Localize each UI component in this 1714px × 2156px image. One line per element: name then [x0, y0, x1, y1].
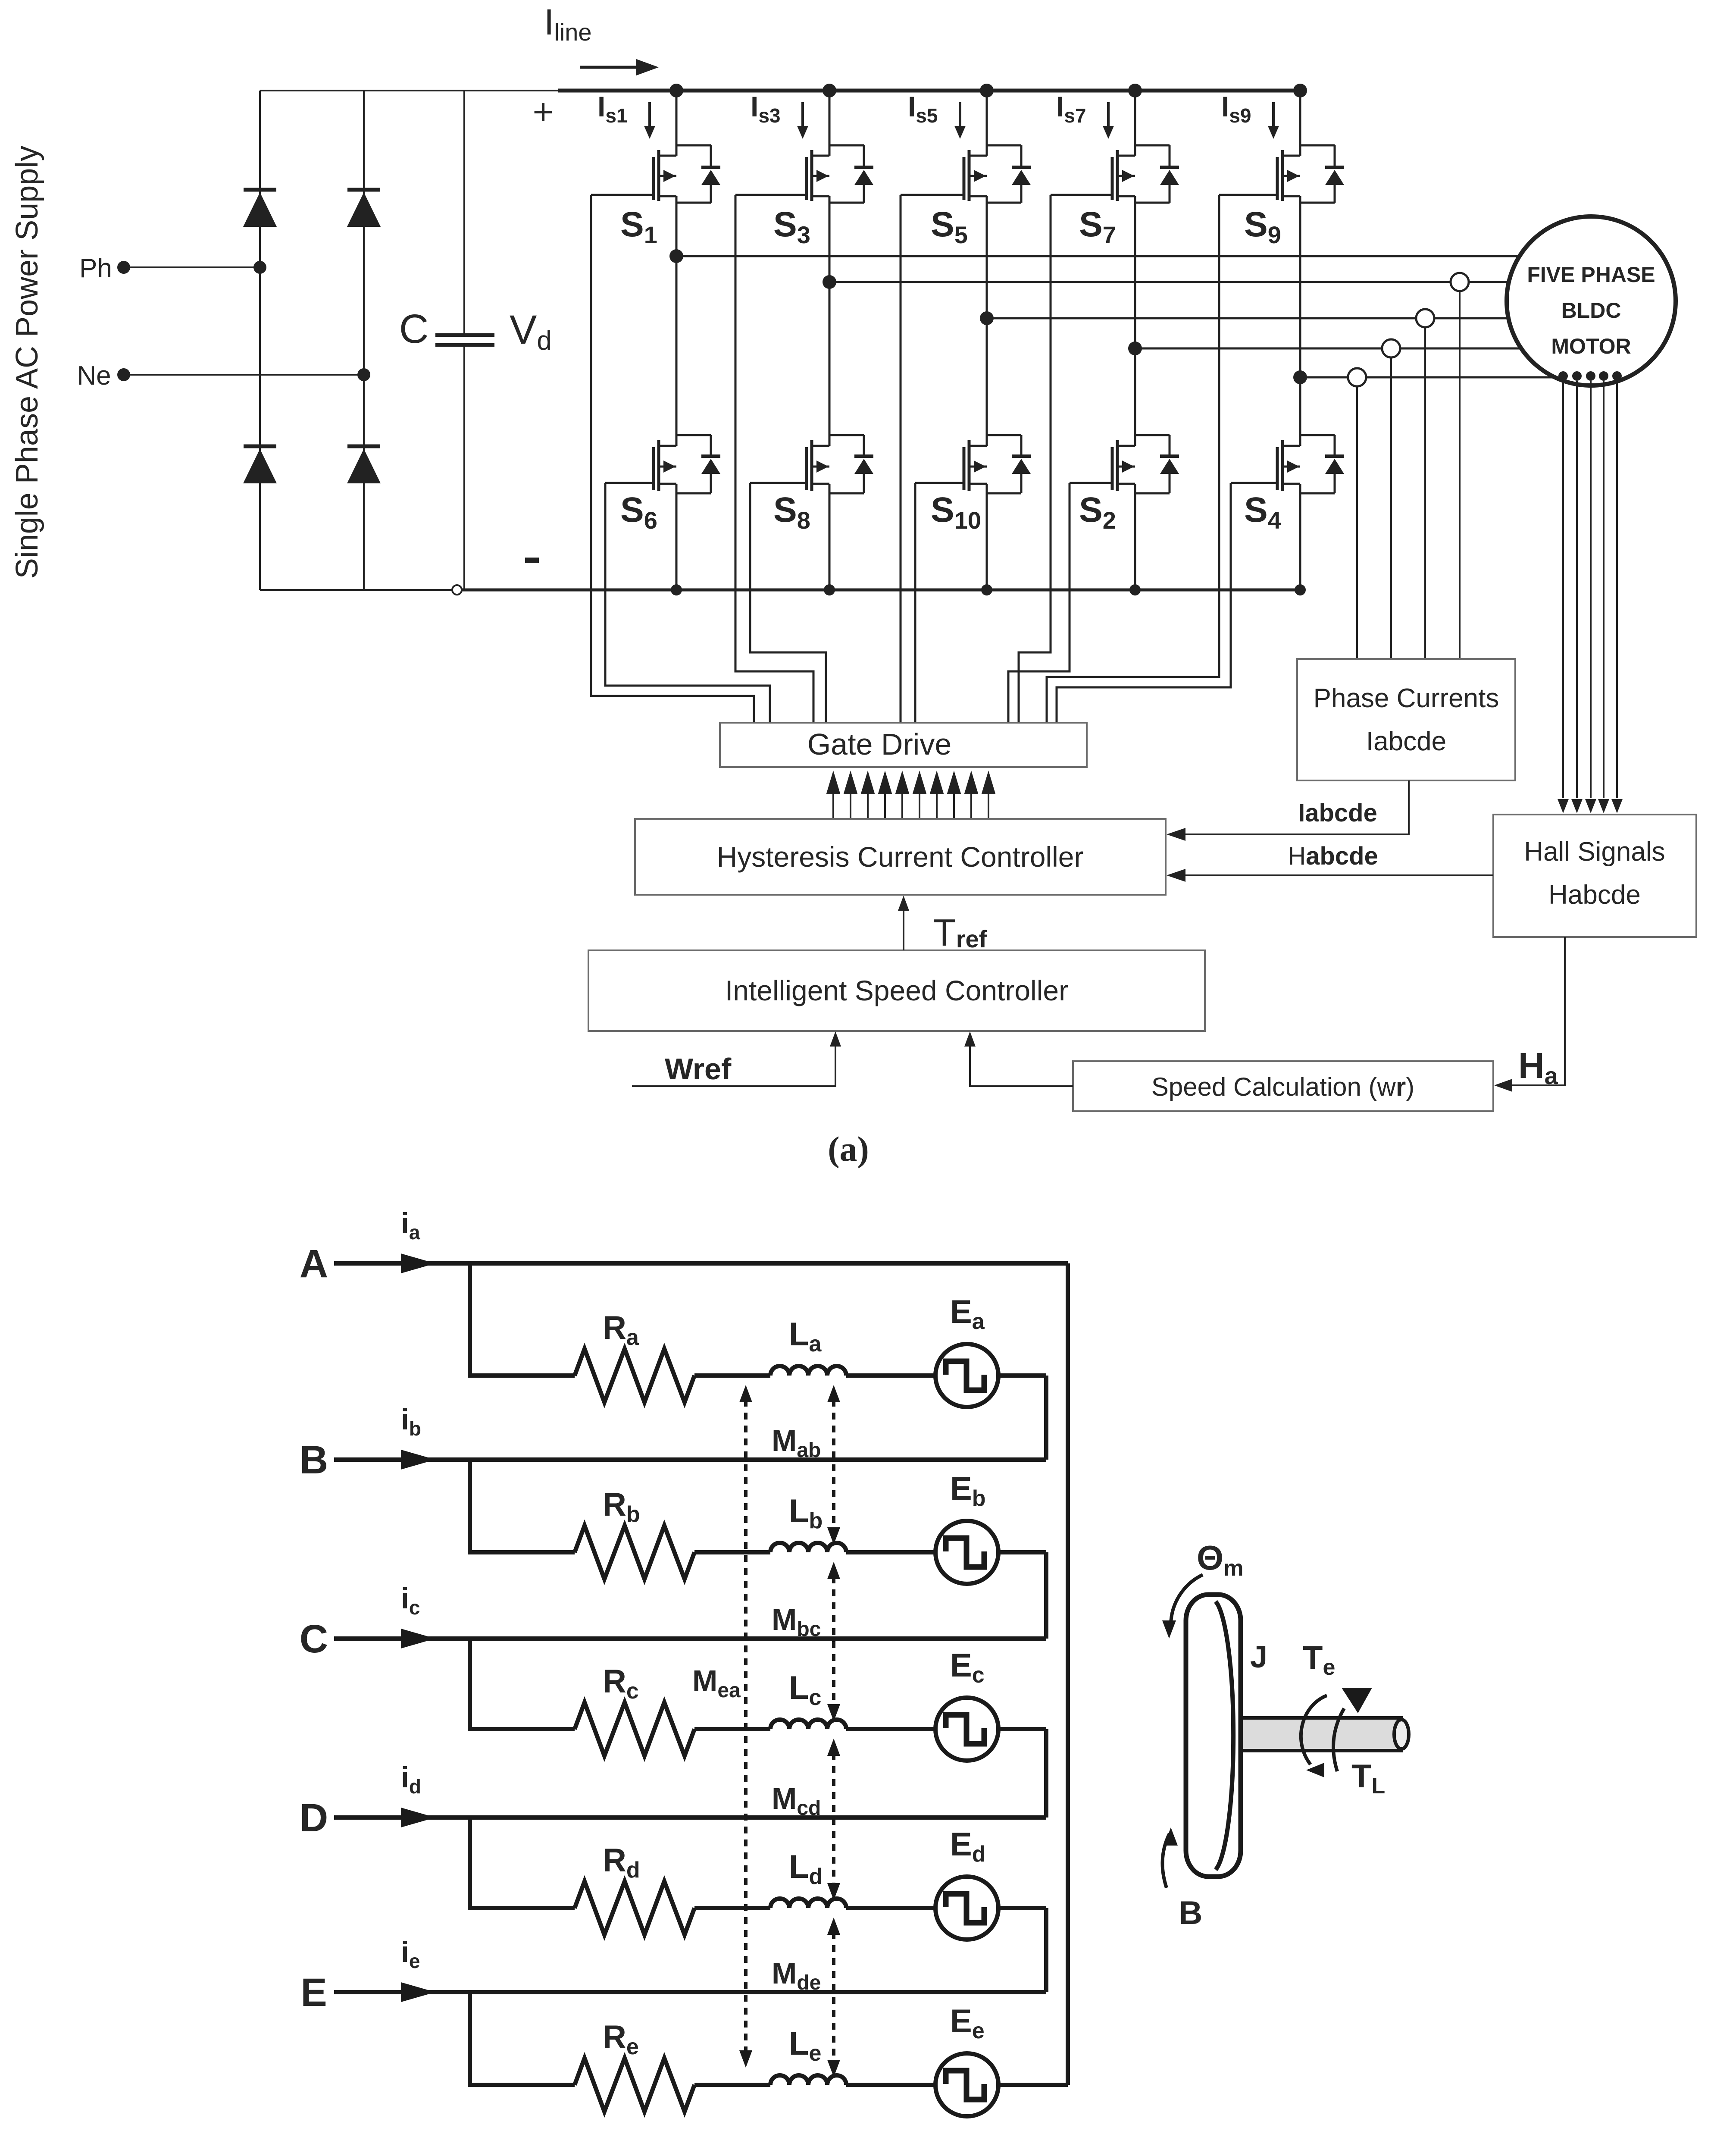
arrow: Is1 current direction	[648, 102, 651, 128]
wire: gate drive to S7	[1019, 195, 1051, 723]
svg-text:Single Phase AC Power Supply: Single Phase AC Power Supply	[10, 146, 44, 579]
mutual inductance Mcd dashed arrow	[832, 1753, 835, 1886]
flywheel J (rotor disc)	[1186, 1595, 1241, 1877]
diode D2 (bridge, bottom-left)	[244, 445, 276, 448]
svg-text:Ph: Ph	[79, 254, 112, 283]
transistor S2 (lower MOSFET with body diode)	[1134, 348, 1136, 446]
wire: outer return conductor	[1066, 1263, 1070, 2085]
svg-text:Iabcde: Iabcde	[1298, 799, 1377, 827]
wire: phase c line to motor	[987, 317, 1508, 320]
node: phase junction leg 3	[980, 311, 994, 325]
wire: phase e line to motor	[1300, 376, 1555, 379]
wire: gate drive to S5	[900, 195, 902, 723]
wire: hall signal 1 to Hall Signals block	[1562, 381, 1564, 798]
node: DC- bus junction leg 5	[1295, 584, 1306, 595]
diode D1 (bridge, top-left)	[244, 188, 276, 192]
wire: hall signal 5 to Hall Signals block	[1616, 381, 1618, 798]
wire: phase A input line	[334, 1261, 1068, 1266]
svg-text:MOTOR: MOTOR	[1551, 334, 1631, 358]
node: DC- bus junction leg 2	[824, 584, 835, 595]
wire: Ha (Hall Signals to Speed Calculation)	[1511, 937, 1565, 1085]
wire: Eb to next phase line	[998, 1550, 1046, 1554]
svg-text:Iabcde: Iabcde	[1366, 727, 1446, 756]
mutual inductance Mab dashed arrow	[832, 1400, 835, 1530]
wire: branch d drop	[468, 1818, 472, 1908]
wire: Ld to Ed	[846, 1906, 935, 1910]
wire: branch d	[468, 1906, 575, 1910]
transistor S8 (lower MOSFET with body diode)	[829, 282, 831, 446]
wire: Lb to Eb	[846, 1550, 935, 1554]
mutual inductance Mea dashed arrow	[744, 1400, 748, 2053]
block: Hall Signals Habcde	[1493, 815, 1696, 937]
transistor S4 (lower MOSFET with body diode)	[1299, 377, 1301, 446]
resistor Re	[575, 2058, 694, 2112]
source Ec (back-EMF)	[935, 1698, 998, 1761]
transistor S9 (upper MOSFET with body diode)	[1299, 91, 1301, 156]
wire: Habcde (Hall Signals to Hysteresis)	[1185, 874, 1493, 876]
arrow: Is7 current direction	[1107, 102, 1110, 128]
node: DC- bus junction leg 3	[981, 584, 992, 595]
block: Phase Currents Iabcde	[1297, 659, 1515, 780]
node: hall sensor terminal 1	[1558, 371, 1568, 381]
svg-text:Hysteresis Current Controller: Hysteresis Current Controller	[717, 841, 1084, 873]
capacitor C	[463, 91, 465, 335]
wire: phase B input line	[334, 1457, 1046, 1462]
svg-text:Wref: Wref	[665, 1052, 732, 1086]
node: hall sensor terminal 4	[1599, 371, 1608, 381]
svg-text:Gate Drive: Gate Drive	[807, 727, 952, 761]
node: phase junction leg 1	[669, 249, 683, 263]
svg-text:C: C	[300, 1617, 328, 1661]
diode D4 (bridge, bottom-right)	[347, 445, 380, 448]
shaft	[1221, 1718, 1401, 1751]
svg-text:Habcde: Habcde	[1548, 880, 1641, 910]
diode D3 (bridge, top-right)	[347, 188, 380, 192]
svg-text:D: D	[300, 1796, 328, 1840]
wire: branch e	[468, 2083, 575, 2087]
source Ed (back-EMF)	[935, 1877, 998, 1940]
motor M: FIVE PHASE BLDC MOTOR	[1507, 216, 1676, 385]
svg-text:E: E	[300, 1971, 327, 2015]
svg-text:(a): (a)	[828, 1129, 869, 1169]
block: Intelligent Speed Controller	[588, 950, 1205, 1031]
transistor S7 (upper MOSFET with body diode)	[1134, 91, 1136, 156]
svg-text:+: +	[532, 91, 554, 132]
wire: Lc to Ec	[846, 1727, 935, 1731]
wire: Ph to bridge	[124, 266, 260, 268]
wire: gate drive to S2	[1008, 483, 1070, 723]
wire: branch c drop	[468, 1639, 472, 1729]
svg-text:Speed Calculation (wr): Speed Calculation (wr)	[1151, 1072, 1414, 1101]
svg-text:A: A	[300, 1242, 328, 1286]
arrow: Is9 current direction	[1272, 102, 1275, 128]
node: hall sensor terminal 2	[1572, 371, 1582, 381]
wire: gate drive to S1	[591, 195, 754, 723]
transistor S10 (lower MOSFET with body diode)	[986, 318, 988, 446]
node: hall sensor terminal 3	[1586, 371, 1595, 381]
wire: current tap b down to Phase Currents block	[1459, 291, 1461, 659]
arrow: Is5 current direction	[959, 102, 961, 128]
node: current sensor tap phase d	[1382, 339, 1400, 357]
wire: branch b	[468, 1550, 575, 1554]
wire: phase a line to motor	[676, 255, 1520, 257]
wire: branch a	[468, 1373, 575, 1378]
node: open terminal on DC- bus	[452, 585, 462, 595]
source Eb (back-EMF)	[935, 1521, 998, 1584]
resistor Rb	[575, 1526, 694, 1579]
wire: Rc to Lc	[694, 1727, 770, 1731]
resistor Rc	[575, 1702, 694, 1756]
wire: current tap c down to Phase Currents block	[1424, 327, 1426, 659]
source Ea (back-EMF)	[935, 1344, 998, 1407]
wire: phase d line to motor	[1135, 348, 1521, 350]
inductor Ld	[770, 1899, 846, 1908]
wire: rectifier leg 2	[363, 91, 365, 590]
wire: Ra to La	[694, 1373, 770, 1378]
block: Gate Drive	[720, 723, 1087, 767]
wire: branch b drop	[468, 1460, 472, 1552]
wire: phase b line to motor	[829, 281, 1509, 283]
label - (DC bus negative)	[525, 558, 539, 563]
node: junction Ne on leg 2	[357, 368, 370, 381]
node: DC+ bus junction leg 3	[980, 84, 994, 97]
inductor La	[770, 1366, 846, 1376]
wire: Ec to next phase line	[998, 1727, 1046, 1731]
wire: hall signal 3 to Hall Signals block	[1590, 381, 1592, 798]
transistor S3 (upper MOSFET with body diode)	[829, 91, 831, 156]
svg-text:C: C	[399, 306, 429, 352]
wire: gate drive to S10	[914, 483, 916, 723]
wire: phase E input line	[334, 1990, 1046, 1994]
svg-text:Hall Signals: Hall Signals	[1524, 837, 1665, 867]
arrow: B friction rotation	[1163, 1833, 1170, 1888]
wire: wr (Speed Calculation to Intelligent)	[970, 1047, 1073, 1086]
wire: hall signal 4 to Hall Signals block	[1603, 381, 1605, 798]
wire: gate drive to S8	[750, 483, 826, 723]
wire: branch e drop	[468, 1992, 472, 2085]
svg-text:B: B	[300, 1438, 328, 1482]
inductor Lb	[770, 1543, 846, 1552]
wire: rectifier leg 1	[259, 91, 261, 590]
wire: gate drive to S6	[605, 483, 770, 723]
svg-text:B: B	[1179, 1895, 1203, 1931]
mutual inductance Mde dashed arrow	[832, 1932, 835, 2062]
wire: Rb to Lb	[694, 1550, 770, 1554]
arrow: Te rotation around shaft	[1301, 1695, 1327, 1764]
svg-text:BLDC: BLDC	[1561, 298, 1621, 323]
wire: current tap d down to Phase Currents block	[1390, 357, 1392, 659]
node: current sensor tap phase b	[1451, 273, 1469, 291]
arrow: Iline direction	[580, 66, 637, 69]
node: DC+ bus junction leg 5	[1293, 84, 1307, 97]
node: DC+ bus junction leg 4	[1128, 84, 1142, 97]
svg-text:Ne: Ne	[77, 361, 111, 391]
transistor S5 (upper MOSFET with body diode)	[986, 91, 988, 156]
node: DC- bus junction leg 1	[671, 584, 682, 595]
wire: DC- bottom bus	[260, 589, 457, 591]
resistor Rd	[575, 1881, 694, 1935]
wire: branch c	[468, 1727, 575, 1731]
block: Hysteresis Current Controller	[635, 819, 1166, 895]
node: junction Ph on leg 1	[253, 261, 266, 274]
wire: Tref (Intelligent to Hysteresis)	[903, 911, 904, 950]
wire: Re to Le	[694, 2083, 770, 2087]
inductor Le	[770, 2075, 846, 2085]
wire: hall signal 2 to Hall Signals block	[1576, 381, 1578, 798]
mutual inductance Mbc dashed arrow	[832, 1576, 835, 1707]
arrows: gate signals (Hysteresis to Gate Drive)	[832, 794, 834, 819]
wire: Le to Ee	[846, 2083, 935, 2087]
wire: phase D input line	[334, 1815, 1046, 1820]
svg-text:Phase Currents: Phase Currents	[1314, 683, 1499, 713]
transistor S1 (upper MOSFET with body diode)	[676, 91, 678, 156]
node: DC+ bus junction leg 2	[823, 84, 836, 97]
node: DC- bus junction leg 4	[1129, 584, 1141, 595]
node: phase junction leg 2	[823, 275, 836, 289]
wire: Wref input	[632, 1047, 835, 1086]
node: hall sensor terminal 5	[1612, 371, 1622, 381]
svg-text:Habcde: Habcde	[1288, 842, 1378, 870]
node: current sensor tap phase c	[1416, 309, 1434, 327]
node: DC+ bus junction leg 1	[669, 84, 683, 97]
resistor Ra	[575, 1349, 694, 1402]
svg-text:Intelligent Speed Controller: Intelligent Speed Controller	[725, 975, 1068, 1006]
arrow: theta_m rotation	[1171, 1575, 1203, 1625]
source Ee (back-EMF)	[935, 2053, 998, 2116]
arrow: TL rotation around shaft	[1333, 1708, 1344, 1771]
wire: gate drive to S9	[1047, 195, 1219, 723]
wire: Ed to next phase line	[998, 1906, 1046, 1910]
transistor S6 (lower MOSFET with body diode)	[676, 256, 678, 446]
wire: La to Ea	[846, 1373, 935, 1378]
inductor Lc	[770, 1720, 846, 1729]
node: current sensor tap phase e	[1348, 368, 1366, 386]
block: Speed Calculation (wr)	[1073, 1061, 1493, 1111]
wire: Iabcde (Phase Currents to Hysteresis)	[1185, 780, 1409, 834]
svg-text:J: J	[1250, 1640, 1267, 1674]
wire: branch a drop	[468, 1263, 472, 1376]
wire: current tap e down to Phase Currents block	[1356, 386, 1358, 659]
wire: Ea to next phase line	[998, 1373, 1046, 1378]
wire: Ne to bridge	[124, 374, 364, 376]
wire: gate drive to S4	[1057, 483, 1231, 723]
wire: DC+ top bus	[260, 90, 558, 91]
node Ne: terminal and label	[117, 368, 130, 381]
wire: Ee to outer return	[998, 2083, 1068, 2087]
arrow: Is3 current direction	[801, 102, 804, 128]
node: phase junction leg 5	[1293, 370, 1307, 384]
wire: gate drive to S3	[735, 195, 813, 723]
wire: Rd to Ld	[694, 1906, 770, 1910]
node: phase junction leg 4	[1128, 342, 1142, 355]
node Ph: terminal and label	[117, 261, 130, 274]
svg-text:FIVE PHASE: FIVE PHASE	[1527, 263, 1655, 287]
wire: phase C input line	[334, 1636, 1046, 1641]
